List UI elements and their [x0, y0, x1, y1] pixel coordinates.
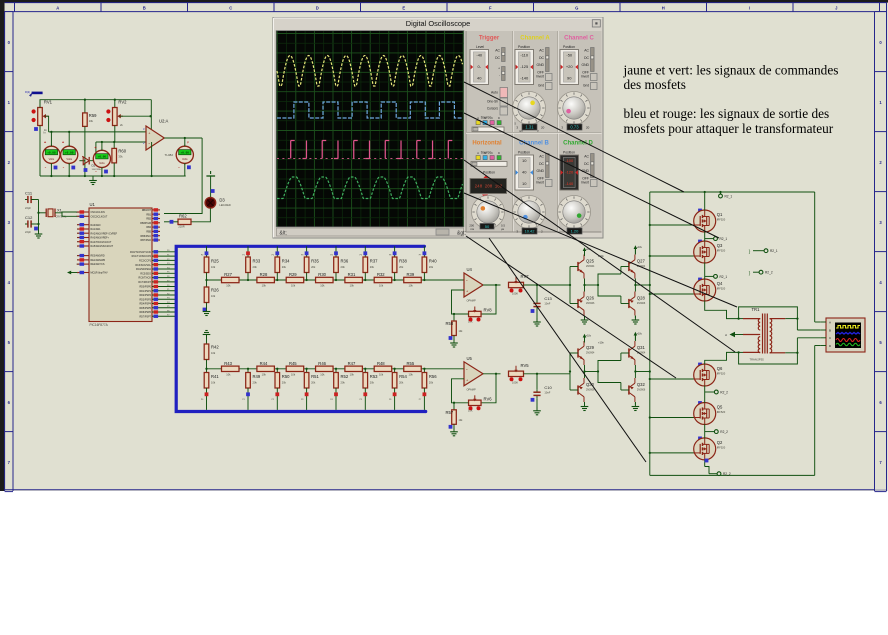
resistor R58 [446, 314, 464, 341]
wire gate stub Q2 [649, 437, 702, 455]
svg-text:C: C [229, 5, 232, 10]
wire VM2 stub [68, 131, 70, 147]
resistor R44 [257, 361, 275, 377]
wire VM1 stub [50, 131, 52, 147]
bottom rail wire [40, 175, 186, 177]
left black bar [0, 0, 5, 491]
center tap arrow [725, 332, 743, 337]
resistor R32 [374, 272, 392, 288]
resistor R51 [301, 368, 320, 410]
svg-text:1.31: 1.31 [525, 125, 534, 130]
MOSFET Q2 [694, 438, 726, 460]
wire Q2 source to bottom rail [705, 459, 709, 474]
svg-text:des mosfets: des mosfets [624, 77, 686, 92]
scope control panel background [466, 31, 602, 232]
svg-text:ms: ms [470, 227, 474, 231]
svg-text:+: + [498, 67, 500, 71]
svg-text:+0.00: +0.00 [98, 156, 107, 159]
wire rail to plus input [150, 100, 152, 132]
svg-text:DC: DC [539, 162, 544, 166]
wire Q6 drain to transformer [705, 352, 739, 364]
svg-text:C11: C11 [25, 191, 33, 196]
svg-text:GND: GND [536, 169, 544, 173]
svg-text:20k: 20k [399, 381, 404, 385]
wire RV1 wiper [45, 116, 49, 132]
resistor R47 [345, 361, 363, 377]
wire Q1 drain to top rail [704, 191, 706, 211]
svg-text:10k: 10k [211, 351, 216, 355]
svg-text:RA3/AN3/VREF+: RA3/AN3/VREF+ [91, 237, 110, 240]
svg-text:Channel C: Channel C [564, 36, 594, 42]
svg-text:90: 90 [567, 76, 572, 81]
svg-text:R37: R37 [370, 259, 378, 264]
svg-text:10k: 10k [89, 119, 94, 123]
wire gate stub Q3 [649, 240, 702, 258]
svg-text:10k: 10k [211, 381, 216, 385]
svg-text:R34: R34 [282, 259, 290, 264]
svg-text:-120: -120 [565, 170, 574, 175]
svg-text:R2_2: R2_2 [723, 472, 731, 476]
resistor R60 [112, 148, 127, 176]
wire Q1 source to Q3 drain [705, 232, 714, 242]
svg-text:10k: 10k [226, 372, 231, 376]
power flag above Q27 [634, 245, 643, 254]
crystal X1 [39, 208, 67, 219]
resistor R25 [201, 246, 220, 281]
svg-text:+10v: +10v [598, 341, 604, 345]
svg-text:LED-RED: LED-RED [219, 203, 231, 207]
svg-text:PIC16F877A: PIC16F877A [90, 323, 109, 327]
svg-text:RB2: RB2 [146, 218, 151, 221]
top rail wire [650, 191, 815, 193]
right ruler band [875, 3, 887, 492]
ground below C10 [533, 407, 541, 415]
svg-text:GND: GND [536, 63, 544, 67]
MOSFET Q3 [694, 241, 726, 263]
svg-text:IRF520: IRF520 [717, 218, 726, 222]
svg-text:RE2/AN7/CS: RE2/AN7/CS [91, 263, 105, 266]
svg-text:RA1/AN1: RA1/AN1 [91, 228, 102, 231]
resistor R30 [316, 272, 334, 288]
svg-text:20: 20 [586, 126, 590, 130]
svg-text:Channel D: Channel D [563, 141, 593, 147]
svg-text:RC4/SDI/SDA: RC4/SDI/SDA [136, 268, 151, 271]
svg-text:R44: R44 [260, 361, 268, 366]
ground below R58 [450, 339, 458, 347]
probe dots RV1 [31, 109, 37, 130]
svg-text:U5: U5 [467, 356, 473, 361]
svg-text:R52: R52 [341, 374, 349, 379]
svg-text:RA5/AN4/SS/C2OUT: RA5/AN4/SS/C2OUT [91, 245, 114, 248]
svg-text:&lt;: &lt; [280, 231, 287, 237]
power flag above Q31 [634, 332, 643, 341]
gate rail vertical wire [649, 192, 651, 475]
top ladder node row wire [207, 279, 465, 281]
svg-text:Position: Position [563, 151, 575, 155]
svg-text:Q25: Q25 [586, 259, 595, 264]
svg-text:20k: 20k [429, 381, 434, 385]
wire driver output Q27Q28 [634, 279, 650, 292]
svg-text:10k: 10k [211, 294, 216, 298]
svg-text:20k: 20k [253, 381, 258, 385]
svg-text:Q26: Q26 [586, 296, 595, 301]
svg-text:R56: R56 [429, 374, 437, 379]
svg-text:Channel A: Channel A [520, 36, 550, 42]
terminal R2_1 top [719, 191, 733, 199]
wire RV7 to driver [524, 284, 571, 286]
ground below R26 [203, 308, 211, 316]
svg-text:+10v: +10v [586, 335, 592, 338]
svg-text:GND: GND [581, 63, 589, 67]
transformer TR1 [743, 307, 785, 362]
svg-text:R28: R28 [260, 272, 268, 277]
svg-text:RC5/SDO: RC5/SDO [140, 272, 151, 275]
svg-text:20k: 20k [370, 381, 375, 385]
svg-text:1.20: 1.20 [571, 229, 580, 234]
voltmeter VM1 [43, 140, 60, 177]
svg-text:R40: R40 [429, 259, 437, 264]
svg-text:Q27: Q27 [637, 259, 646, 264]
svg-text:RB7/PGD: RB7/PGD [141, 239, 152, 242]
resistor R40 [419, 246, 438, 281]
wire VM3 stub [101, 141, 103, 151]
bus top horizontal [176, 245, 427, 413]
svg-text:R45: R45 [289, 361, 297, 366]
potentiometer RV2 [113, 100, 128, 143]
svg-text:C12: C12 [25, 215, 33, 220]
svg-text:10k: 10k [262, 284, 267, 288]
svg-text:RC0/T1OSO/T1CKI: RC0/T1OSO/T1CKI [130, 251, 151, 254]
svg-text:RV6: RV6 [484, 396, 493, 401]
svg-text:One-Sh: One-Sh [487, 100, 498, 104]
svg-text:20: 20 [541, 126, 545, 130]
resistor R62 [178, 214, 191, 229]
svg-text:-100: -100 [565, 158, 574, 163]
svg-text:40: 40 [522, 170, 527, 175]
svg-text:Invert: Invert [536, 75, 544, 79]
resistor R48 [374, 361, 392, 377]
svg-text:-50: -50 [566, 53, 573, 58]
svg-text:+0.00: +0.00 [65, 152, 74, 155]
svg-text:H: H [662, 5, 665, 10]
svg-text:TL082: TL082 [165, 153, 174, 157]
resistor R54 [389, 368, 408, 410]
svg-text:R53: R53 [370, 374, 378, 379]
svg-text:10k: 10k [350, 372, 355, 376]
svg-text:IRF520: IRF520 [717, 445, 726, 449]
wire U2A output [164, 137, 202, 139]
terminal between Q3 Q4 [714, 275, 728, 279]
svg-text:RC3/SCK/SCL: RC3/SCK/SCL [135, 264, 151, 267]
svg-text:A: A [477, 151, 479, 155]
ground below R57 [450, 428, 458, 436]
resistor R34 [272, 246, 291, 281]
callout line 2 [464, 113, 719, 238]
svg-text:DC: DC [584, 56, 589, 60]
svg-text:G: G [575, 5, 578, 10]
transistor Q28 [621, 292, 646, 316]
probe dots RV2 [106, 109, 110, 122]
capacitor C11 [25, 191, 39, 211]
svg-text:IRF520: IRF520 [717, 249, 726, 253]
terminal between Q6 Q5 [714, 390, 728, 394]
svg-text:Cursors: Cursors [487, 107, 499, 111]
svg-text:2N3906: 2N3906 [586, 302, 595, 305]
svg-text:+10v: +10v [637, 246, 643, 249]
MOSFET Q1 [694, 210, 726, 232]
svg-text:RV8: RV8 [484, 308, 493, 313]
svg-text:10k: 10k [350, 284, 355, 288]
svg-text:RD6/PSP6: RD6/PSP6 [139, 311, 151, 314]
svg-text:20k: 20k [399, 265, 404, 269]
svg-text:Q5: Q5 [717, 405, 723, 410]
svg-text:R2_2: R2_2 [765, 271, 773, 275]
svg-text:R38: R38 [399, 259, 407, 264]
svg-text:10.42: 10.42 [524, 229, 535, 234]
resistor R36 [330, 246, 349, 281]
svg-text:10k: 10k [262, 372, 267, 376]
svg-text:22pF: 22pF [25, 230, 31, 234]
wire gate stub Q4 [649, 278, 702, 296]
svg-text:RA4/T0CKI/C1OUT: RA4/T0CKI/C1OUT [91, 241, 112, 244]
svg-text:Gnd: Gnd [583, 84, 589, 88]
svg-text:-140: -140 [565, 181, 574, 186]
svg-text:R59: R59 [89, 113, 97, 118]
svg-text:RE1/AN6/WR: RE1/AN6/WR [91, 259, 106, 262]
svg-text:100K: 100K [512, 292, 518, 296]
svg-text:C13: C13 [544, 296, 552, 301]
svg-text:AC: AC [539, 49, 544, 53]
svg-text:R29: R29 [289, 272, 297, 277]
wire minus to rail [150, 142, 152, 177]
svg-text:E: E [402, 5, 405, 10]
resistor R43 [222, 361, 240, 377]
top ruler band [5, 3, 888, 12]
svg-text:R58: R58 [446, 321, 454, 326]
wire plus input to feedback [452, 379, 469, 404]
svg-text:R26: R26 [211, 288, 219, 293]
svg-text:2N3906: 2N3906 [637, 302, 646, 305]
wire bases Q31Q32 [620, 353, 622, 390]
svg-text:R54: R54 [399, 374, 407, 379]
svg-text:10k: 10k [409, 284, 414, 288]
svg-text:10k: 10k [226, 284, 231, 288]
wire minus input rail [96, 141, 146, 143]
wire plus input to feedback [452, 290, 469, 315]
svg-text:R2_2: R2_2 [720, 390, 728, 394]
svg-text:R47: R47 [348, 361, 356, 366]
resistor R27 [222, 272, 240, 288]
microcontroller U1 PIC16F877A [76, 202, 176, 327]
left ruler band [5, 12, 887, 492]
svg-text:10k: 10k [409, 372, 414, 376]
callout line 3 [464, 160, 735, 352]
op-amp U4 [464, 267, 483, 303]
svg-text:R43: R43 [224, 361, 232, 366]
wire R62 to PIC [164, 220, 178, 224]
svg-text:20k: 20k [282, 381, 287, 385]
svg-text:DC: DC [495, 56, 500, 60]
callout line 5 [466, 236, 676, 378]
wire Q6 source to Q5 drain [705, 386, 715, 404]
callout line 4 [464, 193, 737, 307]
wire transformer leads green [739, 319, 743, 353]
svg-text:Channel B: Channel B [519, 141, 549, 147]
svg-text:R2_1: R2_1 [720, 275, 728, 279]
svg-text:RB1: RB1 [146, 213, 151, 216]
capacitor C10 [531, 374, 553, 411]
svg-text:IRF520: IRF520 [717, 287, 726, 291]
svg-text:mV: mV [519, 129, 523, 133]
wire secondary bottom to scope C [785, 338, 820, 354]
svg-text:Invert: Invert [581, 181, 589, 185]
voltmeter VM3 [84, 145, 111, 176]
wire secondary top to scope B [785, 317, 820, 330]
svg-text:C10: C10 [544, 385, 552, 390]
svg-text:Volts: Volts [99, 161, 105, 165]
svg-text:RB3/PGM: RB3/PGM [140, 222, 151, 225]
bottom rail wire [650, 474, 815, 476]
svg-text:RD1/PSP1: RD1/PSP1 [139, 290, 151, 293]
ground below Q26 [581, 316, 589, 325]
svg-text:10k: 10k [379, 284, 384, 288]
LED D3 [205, 198, 231, 209]
mini oscilloscope icon [820, 318, 865, 352]
svg-text:R(2): R(2) [25, 90, 30, 94]
resistor R28 [257, 272, 275, 288]
oscilloscope window frame [273, 18, 603, 239]
svg-text:100K: 100K [512, 380, 518, 384]
wire U5 feedback [481, 374, 496, 403]
svg-text:R42: R42 [211, 345, 219, 350]
resistor R49 [242, 368, 261, 410]
ground below Q30 [581, 402, 589, 411]
wire driver input Q25 [569, 267, 571, 304]
annotation text jaune et vert [623, 63, 839, 92]
svg-text:R27: R27 [224, 272, 232, 277]
svg-text:B: B [484, 116, 486, 120]
MCLR arrow [67, 271, 77, 275]
wire gate stub Q5 [649, 401, 702, 419]
resistor R56 [419, 368, 438, 410]
svg-text:B: B [484, 151, 486, 155]
svg-text:Q3: Q3 [717, 243, 723, 248]
svg-text:-: - [499, 74, 500, 78]
svg-text:AC: AC [539, 155, 544, 159]
svg-text:Digital Oscilloscope: Digital Oscilloscope [406, 19, 471, 28]
wire driver input Q29 [569, 353, 571, 390]
resistor R38 [389, 246, 408, 281]
wire Q5 source to Q2 drain [705, 424, 715, 438]
svg-text:Volts: Volts [49, 157, 55, 161]
svg-text:R30: R30 [318, 272, 326, 277]
resistor R37 [360, 246, 379, 281]
transistor Q30 [570, 378, 595, 402]
wire label flag [25, 90, 43, 97]
svg-text:RC1/T1OSI/CCP2: RC1/T1OSI/CCP2 [132, 255, 152, 258]
svg-text:OPAMP: OPAMP [467, 387, 476, 391]
svg-text:DC: DC [584, 162, 589, 166]
svg-text:R57: R57 [446, 410, 454, 415]
resistor R55 [404, 361, 422, 377]
wire transformer top loop [737, 307, 797, 320]
wire RV2 wiper to op-amp input [120, 115, 152, 117]
zener diode D2 [82, 156, 101, 171]
svg-text:TRAN-2P3S: TRAN-2P3S [750, 358, 765, 362]
svg-text:Level: Level [476, 45, 484, 49]
svg-text:AC: AC [584, 155, 589, 159]
wire crystal to PIC pins [55, 212, 77, 216]
resistor R52 [330, 368, 349, 410]
ground below C12 [35, 230, 43, 238]
svg-text:OPAMP: OPAMP [467, 299, 476, 303]
svg-text:Q31: Q31 [637, 345, 646, 350]
svg-text:10: 10 [522, 181, 527, 186]
svg-text:2N3904: 2N3904 [586, 265, 595, 268]
svg-text:R32: R32 [377, 272, 385, 277]
svg-text:R62: R62 [179, 214, 187, 219]
svg-text:-140: -140 [520, 76, 529, 81]
transistor Q29 [570, 341, 595, 365]
scope trace channel C pink [277, 141, 463, 159]
svg-text:Source: Source [481, 151, 492, 155]
annotation text bleu et rouge [624, 106, 834, 136]
svg-text:Position: Position [563, 45, 575, 49]
wire right rail to scope A [815, 321, 821, 323]
potentiometer RV6 [468, 395, 492, 412]
isolated terminal pair R2_1 [749, 249, 778, 254]
svg-text:RD0/PSP0: RD0/PSP0 [139, 286, 151, 289]
svg-text:40: 40 [477, 76, 482, 81]
svg-text:Position: Position [483, 171, 495, 175]
power flag above Q29 [583, 334, 605, 345]
svg-text:Horizontal: Horizontal [472, 141, 502, 147]
wire driver output Q31Q32 [634, 365, 650, 378]
svg-text:20k: 20k [341, 381, 346, 385]
resistor R46 [316, 361, 334, 377]
svg-text:RV5: RV5 [521, 363, 530, 368]
svg-text:AC: AC [584, 49, 589, 53]
isolated terminal pair R2_2 [749, 270, 773, 275]
resistor R35 [301, 246, 320, 281]
svg-text:U2:A: U2:A [159, 119, 169, 124]
svg-text:bleu et rouge: les signaux de: bleu et rouge: les signaux de sortie des [624, 106, 830, 121]
wire crystal left vertical [37, 200, 39, 233]
svg-text:Gnd: Gnd [538, 84, 544, 88]
wire RV1 bottom to rail [39, 126, 41, 177]
state marker D3 top [211, 189, 215, 193]
terminal between Q5 Q2 [714, 430, 728, 434]
svg-text:-125: -125 [520, 64, 529, 69]
ground symbol analog rail [89, 177, 97, 185]
svg-text:Volts: Volts [66, 157, 72, 161]
svg-text:Q28: Q28 [637, 296, 646, 301]
terminal between Q1 Q3 [714, 237, 728, 241]
svg-text:10nF: 10nF [544, 390, 550, 394]
svg-text:20k: 20k [282, 265, 287, 269]
resistor R50 [272, 368, 291, 410]
ground below C13 [533, 318, 541, 326]
svg-text:Q32: Q32 [637, 382, 646, 387]
ground above R42 [203, 331, 211, 339]
svg-text:R60: R60 [118, 148, 126, 153]
svg-text:+20: +20 [566, 64, 574, 69]
svg-text:OSC1/CLKIN: OSC1/CLKIN [91, 211, 105, 214]
wire Q4 source to transformer [705, 301, 739, 319]
wire scope D down [815, 345, 821, 347]
wire plus input rail [44, 131, 147, 135]
svg-text:ct: ct [725, 333, 727, 337]
